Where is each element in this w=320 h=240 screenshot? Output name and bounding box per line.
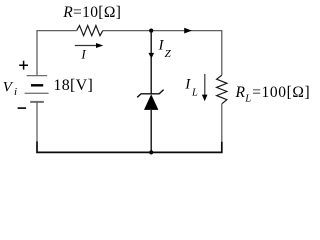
- svg-text:V: V: [3, 79, 14, 95]
- zener diode D1 anode triangle: [144, 94, 158, 110]
- wire: RL bottom terminal down to bottom-right corner: [221, 104, 223, 142]
- battery - polarity mark: [18, 107, 27, 109]
- svg-text:Z: Z: [165, 48, 172, 60]
- svg-text:I: I: [158, 37, 165, 53]
- svg-text:L: L: [191, 87, 198, 98]
- svg-text:I: I: [80, 46, 86, 61]
- wire: node A across top to top-right corner, down to RL top terminal: [151, 31, 222, 76]
- wire: zener branch from node A down to zener cathode: [150, 31, 152, 94]
- wire: R right terminal to node A: [103, 30, 151, 32]
- node A junction dot: [149, 29, 153, 33]
- current direction arrowhead on top wire toward RL: [184, 28, 192, 34]
- battery Vi plate 4 (short, negative): [30, 101, 44, 103]
- battery + polarity mark: [19, 61, 28, 70]
- node B junction dot (bottom): [149, 150, 153, 154]
- wire: bottom rail from bottom-left corner to bottom-right corner: [37, 142, 222, 153]
- svg-text:18[V]: 18[V]: [53, 77, 93, 94]
- current arrow I head: [96, 43, 103, 48]
- svg-text:=100[Ω]: =100[Ω]: [252, 84, 310, 101]
- battery Vi plate 2 (short, negative, thick): [31, 84, 43, 86]
- wire: zener anode down to node B: [150, 110, 152, 152]
- wire: battery - terminal down to bottom-left corner: [36, 102, 38, 142]
- current arrow IZ head (on zener branch wire): [148, 53, 154, 59]
- current arrow IL head: [202, 95, 208, 102]
- svg-text:L: L: [244, 93, 251, 104]
- zener diode D1 cathode bar with bent ends: [137, 90, 163, 98]
- battery Vi plate 1 (long, positive): [27, 75, 48, 77]
- svg-text:I: I: [184, 77, 191, 93]
- current arrow IL shaft: [204, 74, 206, 96]
- wire: top-left loop (battery + terminal up and across to R left terminal): [37, 31, 77, 76]
- battery Vi plate 3 (long, positive): [25, 92, 49, 94]
- resistor RL (100 ohm) vertical zigzag: [217, 75, 227, 104]
- svg-text:R=10[Ω]: R=10[Ω]: [62, 4, 121, 21]
- resistor R1 (R=10 ohm) zigzag: [77, 26, 103, 36]
- svg-text:i: i: [14, 86, 17, 98]
- svg-text:R: R: [235, 84, 246, 101]
- current arrow I (under resistor R) shaft: [75, 45, 97, 47]
